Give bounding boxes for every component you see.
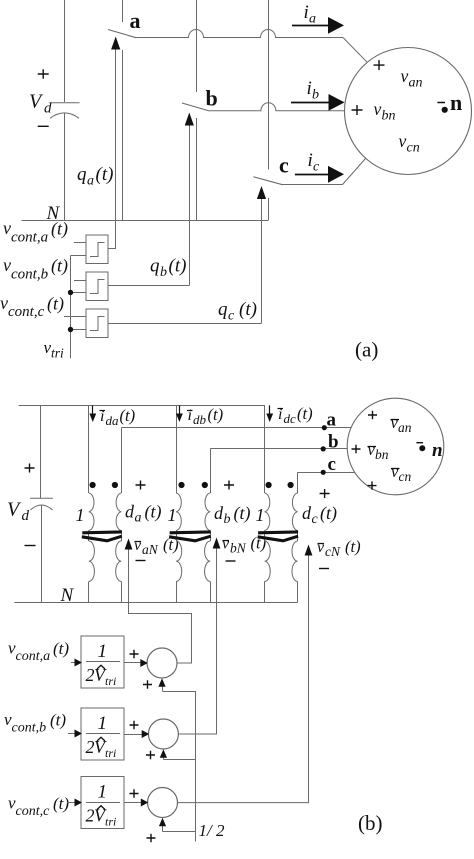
svg-text:(t): (t) — [50, 711, 66, 730]
comparator U3 (phase c PWM) — [86, 309, 108, 338]
neutral node n dot (b) — [419, 445, 425, 451]
svg-text:b: b — [160, 265, 167, 280]
label + S3 bottom — [147, 834, 156, 842]
svg-text:v: v — [374, 99, 382, 119]
svg-text:d: d — [125, 502, 135, 522]
svg-text:1: 1 — [76, 505, 85, 525]
wire+arrow vcont,a into block — [71, 662, 77, 664]
label vaN(t) with overbar — [135, 541, 142, 543]
label + S1 left — [130, 650, 139, 658]
svg-text:tri: tri — [51, 346, 64, 361]
svg-text:(t): (t) — [96, 164, 114, 185]
summing junction S1 — [147, 648, 177, 678]
arrow idb(t) into T2 primary — [179, 405, 181, 415]
wire: comparator b output to riser — [108, 285, 189, 287]
svg-text:(t): (t) — [51, 219, 68, 240]
wire: switch c lower throw contact from N rail — [268, 198, 270, 220]
svg-text:b: b — [312, 88, 319, 103]
gain block 1/2Vtri (phase a) — [81, 636, 124, 688]
svg-text:v: v — [3, 255, 11, 275]
switch a blade (open) — [108, 30, 137, 38]
transformer T2 (phase b, 1:db) — [176, 405, 178, 493]
svg-text:v: v — [317, 539, 325, 556]
neutral node n dot — [442, 107, 448, 113]
svg-text:(t): (t) — [208, 405, 224, 424]
wire: S2 output up to T2 control — [178, 544, 216, 734]
label + vbn — [352, 105, 363, 115]
gain block 1/2Vtri (phase c) — [81, 777, 124, 829]
svg-text:(t): (t) — [239, 299, 257, 320]
svg-text:b: b — [224, 512, 231, 527]
label + of vaN — [136, 481, 146, 490]
terminal c dot — [321, 470, 326, 475]
svg-text:db: db — [193, 412, 207, 427]
capacitor/source Vd (part a) — [50, 102, 80, 104]
label vcN(t) with overbar — [318, 543, 325, 545]
junction vtri-U3 — [68, 327, 73, 332]
svg-text:dc: dc — [284, 411, 297, 426]
svg-text:cn: cn — [407, 141, 420, 156]
svg-text:c: c — [279, 153, 289, 178]
svg-text:1: 1 — [98, 782, 108, 803]
wire: left bus below Vd to N rail (b) — [41, 505, 43, 603]
svg-text:tri: tri — [105, 674, 116, 688]
machine/load circle (part a) — [345, 48, 472, 175]
svg-text:v: v — [0, 293, 8, 313]
wire: comparator a output to riser — [108, 248, 116, 250]
wire: phase a to machine (b) — [121, 427, 351, 429]
svg-text:a: a — [130, 8, 141, 33]
terminal a dot — [322, 425, 327, 430]
arrow idc(t) into T3 primary — [269, 405, 271, 415]
wire: vtri tap to U3 — [71, 329, 87, 331]
capacitor/source Vd (b) — [30, 497, 53, 499]
svg-text:(t): (t) — [51, 256, 68, 277]
switch pole b: line from top bus — [196, 0, 198, 92]
svg-text:v: v — [222, 536, 230, 553]
transformer T1 (phase a, 1:da) — [88, 405, 90, 493]
wire: vcont,a input to comparator U1 — [74, 242, 86, 244]
wire+arrow block b output into S2 — [124, 734, 143, 736]
svg-text:cont,a: cont,a — [16, 649, 51, 664]
svg-text:d: d — [214, 503, 224, 523]
wire: 1/2 distribution bus — [163, 692, 196, 842]
wire: vtri tap to U2 — [71, 292, 87, 294]
svg-text:a: a — [327, 410, 337, 431]
wire: phase c output — [283, 184, 343, 186]
svg-text:cn: cn — [399, 469, 412, 484]
svg-text:cN: cN — [325, 544, 341, 559]
label - of Vd (b) — [25, 545, 36, 547]
label van with overbar (b) — [391, 419, 400, 421]
arrow ida(t) into T1 primary — [92, 405, 94, 415]
svg-text:i: i — [308, 150, 313, 171]
svg-text:b: b — [206, 86, 218, 111]
svg-text:c: c — [328, 454, 336, 475]
svg-text:(t): (t) — [145, 502, 162, 523]
label + van (b) — [368, 411, 377, 419]
label ida(t) with overbar — [100, 410, 106, 412]
svg-text:v: v — [3, 218, 11, 238]
svg-text:V: V — [7, 499, 22, 521]
svg-text:cont,b: cont,b — [12, 721, 47, 736]
label + van — [374, 60, 385, 70]
svg-text:i: i — [278, 406, 282, 423]
label + of vbN — [224, 481, 234, 490]
svg-text:(a): (a) — [355, 338, 378, 362]
svg-text:(t): (t) — [234, 503, 251, 524]
arrow ib — [291, 102, 329, 104]
summing junction S3 — [148, 788, 178, 818]
wire: vtri bus vertical — [70, 256, 72, 359]
arrow db into T2 — [213, 538, 221, 549]
wire: phase b output with crossover hop — [210, 103, 346, 111]
svg-text:(t): (t) — [320, 503, 337, 524]
svg-text:(t): (t) — [345, 537, 361, 556]
svg-text:tri: tri — [105, 815, 116, 829]
wire: switch b lower throw contact from N rail — [196, 118, 198, 220]
svg-text:bn: bn — [375, 447, 389, 462]
label - of vcN — [319, 568, 329, 570]
svg-text:i: i — [307, 78, 312, 99]
label idc(t) with overbar — [278, 408, 284, 410]
svg-text:v: v — [399, 131, 407, 151]
svg-text:i: i — [100, 408, 104, 425]
wire: N rail bus (b) — [14, 602, 297, 604]
label vcn with overbar (b) — [391, 468, 400, 470]
wire: vcont,b input to comparator U2 — [74, 280, 86, 282]
svg-text:(t): (t) — [169, 256, 187, 277]
svg-text:q: q — [150, 256, 160, 277]
svg-text:a: a — [135, 511, 142, 526]
svg-text:1: 1 — [168, 505, 177, 525]
wire: switch a lower throw contact from N rail — [122, 50, 124, 220]
svg-text:n: n — [450, 90, 462, 115]
wire+arrow 1/2 into S2 bottom — [163, 755, 165, 760]
label - of Vd (a) — [38, 125, 49, 127]
svg-text:1/ 2: 1/ 2 — [199, 821, 225, 840]
wire: vcont,c input to comparator U3 — [64, 316, 86, 318]
label + S3 left — [130, 789, 139, 797]
svg-text:aN: aN — [142, 542, 159, 557]
label + of Vd (a) — [38, 69, 49, 78]
wire: comparator c output to riser — [108, 323, 262, 325]
wire+arrow 1/2 into S3 bottom — [162, 824, 164, 832]
svg-text:c: c — [313, 160, 320, 175]
svg-text:i: i — [304, 2, 309, 23]
svg-text:cont,c: cont,c — [8, 304, 45, 320]
wire: phase a diagonal into machine — [343, 38, 367, 63]
label idb(t) with overbar — [187, 410, 193, 412]
svg-text:d: d — [302, 503, 312, 523]
svg-text:da: da — [106, 413, 120, 428]
wire+arrow vcont,c into block — [67, 802, 77, 804]
wire+arrow vcont,b into block — [68, 733, 77, 735]
svg-text:c: c — [228, 309, 235, 324]
wire: left bus below Vd to N rail (a) — [64, 113, 66, 220]
wire: phase c diagonal into machine — [343, 159, 366, 185]
label + of Vd (b) — [25, 464, 35, 473]
terminal b dot — [321, 446, 326, 451]
svg-text:(t): (t) — [53, 794, 69, 813]
svg-text:bn: bn — [382, 109, 396, 124]
switch pole a: stub from top bus — [122, 0, 124, 22]
comparator U1 (phase a PWM) — [86, 235, 108, 264]
label - of vaN — [136, 560, 146, 562]
switch c blade (open) — [254, 177, 283, 185]
wire: phase c to machine (b) — [298, 472, 355, 474]
svg-text:bN: bN — [230, 541, 247, 556]
label - of vbN — [226, 560, 236, 562]
svg-text:cont,b: cont,b — [11, 267, 49, 283]
wire+arrow block c output into S3 — [124, 802, 142, 804]
svg-text:c: c — [312, 512, 319, 527]
svg-text:a: a — [87, 174, 94, 189]
wire+arrow block a output into S1 — [124, 662, 142, 664]
wire: vtri tap to U1 — [71, 255, 87, 257]
label + of vcN — [320, 489, 330, 498]
svg-text:v: v — [134, 537, 142, 554]
svg-text:1: 1 — [98, 713, 108, 734]
comparator U2 (phase b PWM) — [86, 272, 108, 301]
wire: phase a output with crossover hops — [137, 30, 344, 38]
svg-text:q: q — [77, 164, 87, 185]
wire+arrow 1/2 into S1 bottom — [162, 684, 164, 692]
svg-text:1: 1 — [256, 505, 265, 525]
machine/load circle (part b) — [347, 398, 444, 495]
svg-text:an: an — [398, 420, 412, 435]
svg-text:(b): (b) — [358, 811, 383, 835]
svg-text:cont,c: cont,c — [16, 804, 51, 819]
summing junction S2 — [148, 719, 178, 749]
switch b blade (open) — [182, 103, 210, 111]
control arrow qa into switch a — [111, 37, 120, 50]
wire: phase b to machine (b) — [210, 448, 347, 450]
wire: top DC bus (part b) — [19, 405, 265, 407]
svg-text:(t): (t) — [297, 404, 313, 423]
svg-text:d: d — [44, 101, 52, 117]
control arrow qb into switch b — [185, 113, 194, 126]
svg-text:i: i — [188, 407, 192, 424]
svg-text:(t): (t) — [120, 406, 136, 425]
label - neutral (b) — [416, 442, 423, 444]
label + vbn (b) — [352, 445, 361, 453]
label + S2 left — [130, 721, 139, 729]
svg-text:V: V — [29, 91, 44, 113]
label vbN(t) with overbar — [223, 540, 230, 542]
arrow ic — [295, 174, 329, 176]
label vbn with overbar (b) — [368, 446, 377, 448]
gain block 1/2Vtri (phase b) — [81, 708, 124, 760]
wire: S3 output up to T3 control — [178, 551, 309, 803]
label + vcn (b) — [368, 481, 377, 489]
svg-text:a: a — [309, 12, 316, 27]
svg-text:d: d — [22, 508, 30, 524]
svg-text:1: 1 — [98, 641, 108, 662]
svg-text:(t): (t) — [53, 639, 69, 658]
arrow dc into T3 — [305, 545, 313, 556]
wire: left bus from top bus to Vd (b) — [40, 405, 42, 498]
svg-text:an: an — [409, 76, 423, 91]
svg-text:n: n — [432, 440, 443, 461]
svg-text:(t): (t) — [47, 294, 64, 315]
arrow ia — [292, 25, 329, 27]
wire: S1 output up to T1 control — [129, 545, 192, 663]
label + S2 bottom — [146, 751, 155, 759]
wire: N rail bus (a) — [22, 220, 269, 222]
svg-text:v: v — [401, 66, 409, 86]
control arrow qc into switch c — [257, 186, 266, 199]
label - near neutral n — [437, 102, 445, 104]
switch pole c: line from top bus — [268, 0, 270, 170]
label + S1 bottom — [143, 680, 152, 688]
svg-text:b: b — [328, 432, 339, 453]
svg-text:tri: tri — [105, 746, 116, 760]
svg-text:q: q — [218, 299, 228, 320]
svg-text:cont,a: cont,a — [11, 230, 48, 246]
transformer T3 (phase c, 1:dc) — [264, 405, 266, 493]
wire: DC bus positive rail left (part a) — [64, 0, 66, 102]
arrow da into T1 — [125, 539, 133, 550]
junction vtri-U2 — [68, 290, 73, 295]
